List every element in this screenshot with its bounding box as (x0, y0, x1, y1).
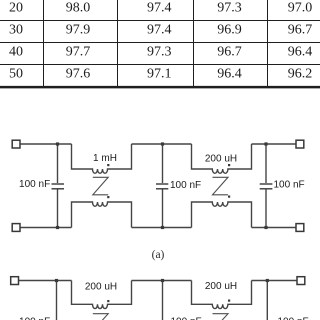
node dot right-bottom (264, 226, 267, 229)
label L3 value 200 uH (85, 282, 117, 293)
node dot right-top (264, 142, 267, 145)
choke L4 polarity dot (228, 300, 230, 302)
label L4 value 200 uH (205, 281, 237, 292)
node dot middle-bottom (161, 226, 164, 229)
label L2 value 200 uH (205, 154, 237, 165)
svg-text:97.3: 97.3 (217, 1, 242, 16)
svg-text:30: 30 (9, 23, 23, 38)
svg-text:97.3: 97.3 (147, 44, 172, 59)
svg-text:200 uH: 200 uH (205, 154, 237, 165)
svg-text:100 nF: 100 nF (170, 180, 201, 191)
inductor L2a top winding (192, 144, 252, 173)
node dot b left (55, 279, 58, 282)
wire b left shunt branch (56, 281, 58, 320)
capacitor C2 plates (156, 184, 168, 189)
node dot b right (266, 279, 269, 282)
svg-text:200 uH: 200 uH (205, 281, 237, 292)
node dot left-bottom (56, 226, 59, 229)
svg-text:40: 40 (9, 44, 23, 59)
wire bottom rail left segment (21, 227, 72, 229)
label C5 value 100 nF partial (171, 317, 202, 320)
label C4 value 100 nF partial (19, 317, 50, 320)
svg-text:100 nF: 100 nF (171, 317, 202, 320)
port terminal top-left (12, 140, 20, 148)
wire b top rail middle segment (132, 280, 192, 282)
label L1 value 1 mH (93, 153, 117, 164)
wire bottom rail middle segment (132, 227, 192, 229)
svg-text:97.0: 97.0 (288, 1, 313, 16)
choke L1 polarity dot bottom (107, 196, 109, 198)
node dot middle-top (161, 142, 164, 145)
port terminal top-right (296, 140, 304, 148)
wire middle shunt branch upper (162, 144, 164, 183)
choke L4 core symbol partial (213, 314, 229, 320)
inductor L3a top winding (72, 281, 132, 309)
inductor L2b bottom winding (192, 202, 252, 228)
svg-text:50: 50 (9, 66, 23, 81)
svg-text:96.9: 96.9 (217, 23, 242, 38)
wire b top rail right segment (252, 280, 297, 282)
capacitor C3 plates (260, 184, 273, 189)
svg-text:100 nF: 100 nF (278, 317, 309, 320)
capacitor C1 plates (52, 184, 65, 189)
svg-text:98.0: 98.0 (66, 1, 91, 16)
label C6 value 100 nF partial (278, 317, 309, 320)
svg-text:96.4: 96.4 (288, 44, 313, 59)
wire left shunt branch lower (57, 189, 59, 227)
svg-text:97.4: 97.4 (147, 1, 172, 16)
wire right shunt branch lower (265, 189, 267, 227)
svg-text:100 nF: 100 nF (19, 317, 50, 320)
table grid lines (0, 0, 320, 87)
svg-text:200 uH: 200 uH (85, 282, 117, 293)
svg-text:97.6: 97.6 (66, 66, 91, 81)
svg-text:100 nF: 100 nF (19, 179, 50, 190)
wire top rail middle segment (132, 143, 192, 145)
label C3 value 100 nF (274, 180, 305, 191)
svg-text:20: 20 (9, 1, 23, 16)
svg-text:97.9: 97.9 (66, 23, 91, 38)
table row 4 (9, 66, 312, 81)
wire top rail right segment (252, 143, 296, 145)
label C1 value 100 nF (19, 179, 50, 190)
port terminal bottom-left (12, 224, 20, 232)
svg-text:96.7: 96.7 (217, 44, 242, 59)
wire b middle shunt branch (162, 281, 164, 320)
svg-text:96.7: 96.7 (288, 23, 313, 38)
table row 3 (9, 44, 312, 59)
choke L1 polarity dot top (107, 164, 109, 166)
port terminal b top-left (11, 277, 19, 285)
port terminal bottom-right (296, 224, 304, 232)
port terminal b top-right (297, 277, 305, 285)
choke L2 core symbol (213, 177, 229, 195)
svg-text:97.7: 97.7 (66, 44, 91, 59)
svg-text:97.1: 97.1 (147, 66, 172, 81)
wire b right shunt branch (266, 281, 268, 320)
svg-text:96.2: 96.2 (288, 66, 313, 81)
caption (a) (152, 249, 165, 261)
wire middle shunt branch lower (162, 189, 164, 227)
choke L2 polarity dot top (228, 164, 230, 166)
label C2 value 100 nF (170, 180, 201, 191)
inductor L4a top winding (192, 281, 252, 309)
choke L3 polarity dot (107, 300, 109, 302)
table row 1 (9, 1, 312, 16)
choke L3 core symbol partial (93, 314, 108, 320)
svg-text:97.4: 97.4 (147, 23, 172, 38)
inductor L1a top winding (72, 144, 132, 173)
svg-text:(a): (a) (152, 249, 165, 261)
wire bottom rail right segment (252, 227, 296, 229)
node dot left-top (56, 142, 59, 145)
svg-text:96.4: 96.4 (217, 66, 242, 81)
wire left shunt branch upper (57, 144, 59, 183)
svg-text:100 nF: 100 nF (274, 180, 305, 191)
choke L1 core symbol (93, 177, 108, 195)
wire b top rail left segment (19, 280, 72, 282)
inductor L1b bottom winding (72, 202, 132, 228)
wire right shunt branch upper (265, 144, 267, 183)
svg-text:1 mH: 1 mH (93, 153, 117, 164)
choke L2 polarity dot bottom (228, 196, 230, 198)
table row 2 (9, 23, 312, 38)
node dot b middle (161, 279, 164, 282)
wire top rail left segment (21, 143, 72, 145)
